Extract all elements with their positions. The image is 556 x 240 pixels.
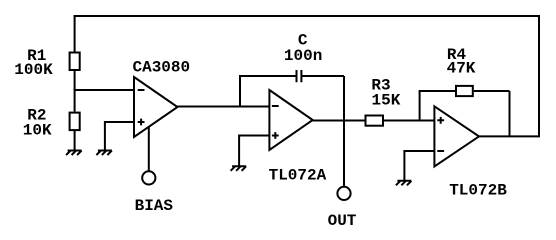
svg-text:BIAS: BIAS bbox=[135, 197, 174, 215]
wire integrator feedback top right segment bbox=[301, 75, 344, 77]
ground at TL072A non-inverting input bbox=[231, 166, 247, 171]
terminal circle OUT bbox=[337, 187, 350, 200]
wire integrator feedback left vertical bbox=[239, 76, 241, 108]
plus sign TL072A bbox=[272, 132, 279, 139]
wire TL072B inverting input to ground bbox=[404, 151, 434, 181]
wire left vertical to R1 bbox=[74, 15, 76, 53]
wire TL072B output to right vertical bbox=[479, 135, 540, 137]
wire R3 to TL072B non-inverting input bbox=[384, 120, 434, 122]
svg-text:CA3080: CA3080 bbox=[132, 59, 190, 77]
wire right vertical from top to TL072B output bbox=[538, 15, 540, 136]
op-amp U3 TL072B triangle bbox=[434, 106, 479, 166]
wire CA3080 bias pin bbox=[148, 127, 150, 172]
wire integrator feedback top left segment bbox=[239, 75, 297, 77]
minus sign CA3080 bbox=[138, 89, 145, 91]
plus sign CA3080 bbox=[138, 119, 145, 126]
wire R4 right segment bbox=[474, 90, 510, 92]
wire CA3080 non-inverting input to ground bbox=[105, 122, 134, 151]
wire TL072A non-inverting input to ground bbox=[239, 136, 269, 167]
resistor R3 bbox=[366, 116, 384, 126]
svg-text:100n: 100n bbox=[284, 47, 322, 65]
svg-text:100K: 100K bbox=[14, 61, 53, 79]
wire top feedback horizontal bbox=[74, 15, 539, 17]
svg-text:OUT: OUT bbox=[328, 212, 357, 230]
wire node up to R4 left bbox=[419, 91, 421, 122]
wire node to CA3080 inverting input bbox=[74, 89, 134, 91]
svg-text:15K: 15K bbox=[371, 91, 400, 109]
wire TL072A output to R3 bbox=[313, 120, 365, 122]
wire R4 feedback vertical down to output bbox=[509, 91, 511, 136]
ground at TL072B inverting input bbox=[396, 181, 412, 186]
op-amp U1 CA3080 triangle bbox=[134, 77, 178, 137]
wire feedback right vertical down through output node to OUT bbox=[343, 76, 345, 187]
svg-text:47K: 47K bbox=[447, 60, 476, 78]
svg-text:10K: 10K bbox=[23, 122, 52, 140]
wire R4 left segment bbox=[419, 90, 455, 92]
wire R1 bottom to R2 top bbox=[74, 71, 76, 112]
resistor R4 bbox=[456, 86, 473, 96]
svg-text:TL072A: TL072A bbox=[269, 166, 327, 184]
resistor R1 bbox=[70, 53, 80, 71]
plus sign TL072B bbox=[437, 117, 444, 124]
terminal circle BIAS bbox=[142, 171, 155, 184]
svg-text:TL072B: TL072B bbox=[449, 182, 507, 200]
resistor R2 bbox=[70, 113, 80, 131]
wire R2 bottom to ground bbox=[74, 131, 76, 151]
op-amp U2 TL072A triangle bbox=[269, 90, 312, 150]
minus sign TL072A bbox=[272, 105, 279, 107]
wire CA3080 output to TL072A inverting input bbox=[178, 106, 270, 108]
capacitor C1 plates bbox=[297, 70, 302, 82]
minus sign TL072B bbox=[437, 150, 444, 152]
ground below R2 bbox=[66, 151, 82, 156]
ground at CA3080 non-inverting input bbox=[96, 151, 112, 156]
